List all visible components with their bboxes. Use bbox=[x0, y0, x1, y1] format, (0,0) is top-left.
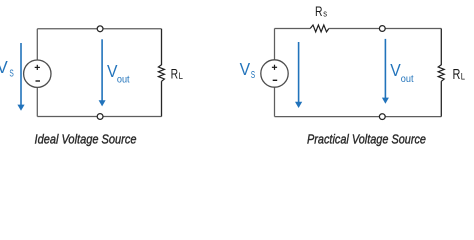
wire bottom (left circuit) bbox=[37, 116, 161, 118]
Vout arrow (right circuit) bbox=[382, 39, 389, 104]
svg-text:R: R bbox=[453, 67, 461, 83]
svg-text:L: L bbox=[179, 71, 183, 81]
VS arrow (left circuit) bbox=[17, 43, 24, 111]
svg-text:out: out bbox=[401, 74, 414, 85]
svg-text:Practical Voltage Source: Practical Voltage Source bbox=[307, 132, 426, 147]
svg-text:L: L bbox=[461, 71, 465, 81]
plus sign inside source (right) bbox=[272, 65, 277, 70]
voltage source V2 circle (right) bbox=[261, 60, 288, 87]
minus sign inside source (left) bbox=[36, 80, 41, 82]
wire right branch upper (right circuit) bbox=[440, 29, 442, 66]
wire right branch upper (left circuit) bbox=[161, 29, 163, 65]
minus sign inside source (right) bbox=[273, 79, 278, 81]
svg-text:S: S bbox=[251, 69, 255, 81]
wire top-left segment (right circuit) bbox=[275, 28, 311, 30]
wire right branch lower (right circuit) bbox=[440, 81, 442, 116]
svg-text:Ideal Voltage Source: Ideal Voltage Source bbox=[35, 132, 137, 147]
wire top-right segment (right circuit) bbox=[329, 28, 442, 30]
node terminal bottom (right circuit) bbox=[379, 114, 385, 120]
plus sign inside source (left) bbox=[35, 65, 40, 70]
wire top (left circuit) bbox=[37, 28, 161, 30]
Vout arrow (left circuit) bbox=[99, 39, 106, 106]
svg-text:R: R bbox=[171, 66, 179, 82]
svg-text:s: s bbox=[323, 9, 327, 19]
wire left branch (right circuit) bbox=[274, 29, 276, 117]
wire left branch (left circuit) bbox=[36, 29, 38, 117]
resistor RL zigzag (right circuit) bbox=[438, 65, 444, 82]
resistor RL zigzag (left circuit) bbox=[158, 65, 164, 82]
svg-text:V: V bbox=[0, 57, 8, 77]
wire right branch lower (left circuit) bbox=[161, 81, 163, 116]
resistor Rs zigzag (right circuit) bbox=[310, 25, 329, 32]
node terminal top (left circuit) bbox=[97, 26, 103, 32]
source branch arrow (right circuit) bbox=[295, 42, 302, 108]
voltage source V1 circle (left) bbox=[24, 60, 51, 87]
node terminal top (right circuit) bbox=[379, 26, 385, 32]
svg-text:out: out bbox=[117, 75, 130, 86]
svg-text:V: V bbox=[390, 60, 401, 80]
wire bottom (right circuit) bbox=[275, 116, 442, 118]
svg-text:S: S bbox=[9, 67, 13, 79]
node terminal bottom (left circuit) bbox=[97, 114, 103, 120]
svg-text:V: V bbox=[240, 59, 251, 79]
svg-text:R: R bbox=[315, 3, 323, 19]
